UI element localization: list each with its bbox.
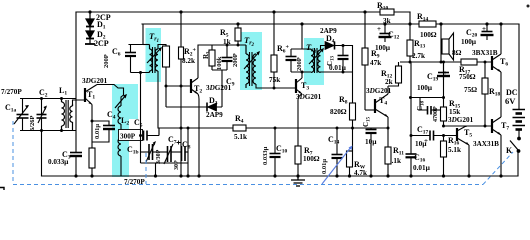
junction dot C13 bottom bbox=[342, 71, 345, 74]
wire L1 secondary top to T1 base bbox=[73, 100, 86, 106]
oscillator coil L2 highlight bbox=[112, 84, 138, 119]
junction dot C18 wire at R13 column bbox=[409, 96, 412, 99]
wire rail B down to Tr3 primary top bbox=[301, 24, 303, 49]
label 300P for C5 on white box bbox=[119, 130, 143, 141]
junction dot T2 emitter ground bbox=[197, 174, 200, 177]
resistor R13 bbox=[407, 24, 413, 62]
junction dot C17 wire at R13 column bbox=[410, 134, 413, 137]
transistor T6 bbox=[492, 54, 501, 72]
svg-text:6/26P: 6/26P bbox=[29, 115, 36, 131]
diode D3 2AP9 bbox=[207, 103, 217, 112]
diode D4 2AP9 bbox=[325, 42, 335, 50]
junction dot gang left ground bbox=[154, 174, 157, 177]
svg-text:5.1k: 5.1k bbox=[234, 133, 247, 141]
svg-text:75k: 75k bbox=[269, 76, 280, 84]
svg-text:4700P: 4700P bbox=[433, 106, 439, 122]
wire antenna tank top rail bbox=[20, 98, 76, 100]
svg-text:3DG201: 3DG201 bbox=[82, 77, 108, 85]
svg-text:5.1k: 5.1k bbox=[448, 146, 461, 154]
wire Tr1 primary top from corner bbox=[143, 44, 150, 46]
junction dot C5 feed at Tr1 bottom wire bbox=[139, 71, 142, 74]
wire R9 to T4 base bbox=[365, 109, 375, 111]
dashed blue gang coupling vertical at C1a bbox=[13, 121, 513, 185]
svg-text:100μ: 100μ bbox=[417, 83, 433, 92]
wire gang box drop to ground left bbox=[155, 163, 157, 176]
junction dot speaker top at rail B bbox=[439, 22, 442, 25]
wire T7 emitter to ground rail bbox=[500, 135, 502, 176]
capacitor C9 bbox=[222, 45, 233, 70]
junction dot C14 ground bbox=[335, 174, 338, 177]
svg-text:200P: 200P bbox=[296, 57, 303, 71]
resistor R8 bbox=[350, 103, 356, 128]
svg-text:0.01μ: 0.01μ bbox=[321, 159, 328, 174]
junction dot C19 R15 at output line bbox=[442, 61, 445, 64]
svg-text:0.01μ: 0.01μ bbox=[94, 124, 101, 139]
wire T4 collector to R12 bbox=[387, 86, 389, 94]
svg-text:10μ: 10μ bbox=[415, 139, 427, 148]
svg-text:820Ω: 820Ω bbox=[330, 107, 347, 116]
junction dot R8 bottom at AGC line bbox=[351, 127, 354, 130]
wire rail A to rail B link bbox=[409, 12, 411, 24]
svg-text:2AP9: 2AP9 bbox=[206, 111, 223, 119]
wire T6 collector up to rail B bbox=[500, 24, 502, 54]
wire tank bottom to ground rail at x41.5 bbox=[41, 131, 43, 177]
dashed blue coupling vertical at C1b bbox=[145, 153, 147, 184]
wire Tr3 secondary bottom node bbox=[321, 71, 353, 73]
svg-text:0.033μ: 0.033μ bbox=[48, 157, 69, 166]
junction dot AGC vertical ground bbox=[179, 174, 182, 177]
junction dot R1 at ground rail bbox=[90, 174, 93, 177]
wire Tr3 bottom node bbox=[291, 71, 311, 73]
IF transformer Tr2 bbox=[244, 45, 260, 88]
junction dot AGC vertical at R4 line bbox=[180, 127, 183, 130]
wire gang box drop to ground right bbox=[187, 163, 189, 176]
stray dot top right bbox=[527, 5, 530, 8]
svg-text:2CP: 2CP bbox=[94, 39, 109, 48]
svg-text:0.033μ: 0.033μ bbox=[262, 146, 269, 165]
junction dot rail A feeding R9 bbox=[363, 10, 366, 13]
inductor L1 primary winding bbox=[62, 99, 65, 131]
variable capacitor C1a bbox=[14, 99, 29, 131]
junction dot R15 bottom bbox=[442, 125, 445, 128]
transistor T2 bbox=[191, 78, 198, 94]
svg-text:10μ: 10μ bbox=[365, 137, 377, 146]
L1 core lines bbox=[66, 100, 68, 128]
junction dot T1 emitter C4 branch bbox=[91, 120, 94, 123]
svg-text:30P: 30P bbox=[174, 160, 180, 170]
wire T2 emitter down to ground rail bbox=[198, 94, 199, 176]
svg-text:+: + bbox=[377, 25, 381, 33]
junction dot T5 emitter ground bbox=[467, 174, 470, 177]
capacitor C13 bbox=[338, 46, 349, 73]
svg-text:6V: 6V bbox=[505, 96, 516, 106]
diode D2 2CP bbox=[85, 27, 95, 45]
wire tank bottom rail bbox=[20, 130, 76, 132]
resistor R1 unlabeled T1 emitter bbox=[89, 142, 95, 176]
wire R2 node down AGC bbox=[180, 86, 182, 176]
wire AGC line y128 bbox=[159, 127, 388, 129]
wire rail B left corner down to Tr1 primary top bbox=[129, 24, 143, 45]
svg-text:0.01μ: 0.01μ bbox=[329, 63, 347, 72]
node junction dot on rail A at D1 bbox=[88, 10, 91, 13]
wire T6 emitter down to T7 collector bbox=[500, 72, 502, 117]
svg-text:3DG201: 3DG201 bbox=[448, 116, 474, 124]
coupling box beside Tr1 bbox=[163, 46, 170, 67]
junction dot speaker bottom bbox=[440, 61, 443, 64]
wire Tr1 secondary bottom down to gang box top bbox=[158, 71, 159, 136]
junction dot C5 feed at ledge bbox=[139, 134, 142, 137]
IF transformer Tr1 highlight bbox=[146, 28, 162, 82]
wire output line y62 bbox=[400, 61, 492, 63]
junction dot rail A feeding R2 bbox=[179, 10, 182, 13]
transistor T4 bbox=[375, 94, 388, 117]
svg-text:300P: 300P bbox=[120, 133, 136, 141]
junction dot R13 at output line bbox=[409, 61, 412, 64]
wire C4 branch bbox=[92, 121, 109, 125]
junction dot T7 emitter ground bbox=[499, 174, 502, 177]
junction dot T4 emitter node bbox=[387, 127, 390, 130]
capacitor C17 bbox=[411, 131, 457, 141]
junction dot C15 ground bbox=[369, 174, 372, 177]
junction dot rail link at B bbox=[408, 22, 411, 25]
dashed blue gang coupling bottom bbox=[13, 184, 483, 186]
inductor L1 secondary winding bbox=[70, 104, 73, 131]
svg-text:3DG201: 3DG201 bbox=[296, 93, 322, 101]
wire T7 base line y126 bbox=[444, 125, 493, 127]
junction dot R5 at node line bbox=[237, 44, 240, 47]
svg-text:2.7k: 2.7k bbox=[412, 52, 425, 60]
wire Tr1 primary bottom node bbox=[131, 72, 150, 74]
oscillator coil L2 with adjustable core bbox=[115, 94, 127, 176]
IF transformer Tr3 highlight bbox=[304, 38, 324, 85]
svg-text:47k: 47k bbox=[370, 59, 381, 67]
wire gang step up to AGC line bbox=[158, 128, 160, 136]
svg-text:100μ: 100μ bbox=[461, 37, 477, 46]
wire Tr2 secondary bottom to T3 base bbox=[256, 84, 296, 88]
junction dot C14 at AGC line bbox=[336, 127, 339, 130]
resistor R2 bbox=[179, 12, 184, 86]
switch K bbox=[510, 137, 520, 176]
wire rail B bbox=[142, 23, 519, 25]
resistor R16 bbox=[441, 136, 447, 177]
junction dot T3 collector node bbox=[301, 71, 304, 74]
junction dot C10 at AGC line bbox=[274, 127, 277, 130]
junction dot tank top at C2 bbox=[40, 97, 43, 100]
junction dot C3 at ground rail bbox=[74, 174, 77, 177]
resistor R10 in rail A bbox=[380, 9, 394, 15]
resistor R12 bbox=[388, 62, 402, 86]
junction dot R18 bottom at T7 base line bbox=[484, 125, 487, 128]
capacitor C4 bbox=[92, 126, 115, 143]
wire T5 collector to T7 base line bbox=[465, 126, 467, 127]
junction dot C16 ground bbox=[409, 174, 412, 177]
resistor R15 bbox=[441, 62, 447, 126]
resistor R4 bbox=[233, 125, 246, 131]
svg-text:750Ω: 750Ω bbox=[459, 72, 476, 81]
wire coupling box to T2 base bbox=[166, 67, 191, 107]
potentiometer wiper arrow blue bbox=[322, 146, 353, 185]
loudspeaker 8ohm bbox=[442, 33, 454, 60]
ground symbol below rail bbox=[291, 176, 305, 186]
junction dot R11 ground bbox=[386, 174, 389, 177]
capacitor C14 bbox=[332, 128, 343, 176]
junction dot C20 at rail B bbox=[485, 22, 488, 25]
junction dot Rw ground bbox=[348, 174, 351, 177]
capacitor C6 bbox=[125, 44, 136, 73]
capacitor C5 bbox=[144, 131, 148, 141]
svg-text:3/30P: 3/30P bbox=[156, 149, 162, 164]
trimmer capacitor C7 bbox=[164, 144, 181, 164]
svg-text:3BX31B: 3BX31B bbox=[472, 49, 498, 57]
junction dot R6 at T3 base wire bbox=[273, 87, 276, 90]
battery 6V bbox=[513, 110, 526, 130]
resistor R14 in rail B bbox=[419, 21, 436, 27]
resistor R11 bbox=[385, 128, 391, 176]
capacitor C3 bbox=[70, 153, 82, 157]
potentiometer Rw volume control bbox=[347, 128, 353, 176]
resistor R17 in output line bbox=[461, 59, 477, 65]
junction dot T6 collector at rail B bbox=[499, 22, 502, 25]
svg-text:15k: 15k bbox=[449, 108, 460, 116]
wire rail B right corner down to battery bbox=[518, 24, 520, 109]
resistor R5 bbox=[235, 24, 241, 45]
transistor T3 bbox=[296, 78, 302, 94]
wire bottom ground rail bbox=[42, 175, 519, 177]
svg-text:7/270P: 7/270P bbox=[1, 88, 22, 96]
diode D1 2CP bbox=[86, 12, 94, 27]
wire R3 C9 bottom node bbox=[212, 66, 227, 70]
capacitor C15 bbox=[366, 128, 389, 176]
junction dot rail B at C12 bbox=[383, 22, 386, 25]
svg-text:8Ω: 8Ω bbox=[452, 48, 462, 57]
wire battery to switch bbox=[518, 130, 520, 138]
IF transformer Tr3 bbox=[309, 48, 324, 73]
junction dot D4 output at C13 bbox=[342, 44, 345, 47]
resistor R6 bbox=[271, 12, 277, 88]
capacitor C18 bbox=[411, 98, 444, 115]
wire T5 emitter to ground bbox=[468, 145, 470, 176]
svg-text:100Ω: 100Ω bbox=[420, 30, 437, 39]
junction dot R18 top at output line bbox=[484, 61, 487, 64]
junction dot R7 ground bbox=[296, 174, 299, 177]
electrolytic capacitor C20 bbox=[481, 24, 494, 40]
svg-text:3AX31B: 3AX31B bbox=[473, 140, 499, 148]
resistor R9 bbox=[362, 12, 368, 110]
junction dot gang right ground bbox=[186, 174, 189, 177]
resistor R7 bbox=[295, 146, 301, 176]
junction dot C10 ground bbox=[273, 174, 276, 177]
wire C5 feed down to gang box bbox=[140, 73, 142, 136]
junction dot gang right at AGC line bbox=[187, 127, 190, 130]
wire T3 emitter down to R7 bbox=[298, 94, 302, 148]
wire top rail A bbox=[76, 11, 410, 13]
dashed blue coupling diagonal to switch K bbox=[483, 152, 513, 185]
svg-text:100Ω: 100Ω bbox=[303, 154, 320, 163]
transistor T5 bbox=[457, 126, 469, 145]
wire Tr3 secondary top to D4 bbox=[320, 46, 322, 51]
capacitor 200P across Tr3 primary bbox=[286, 49, 297, 72]
resistor R18 bbox=[482, 62, 488, 126]
page corner mark bottom left bbox=[0, 188, 4, 191]
junction dot rail B feeding Tr3 bbox=[300, 22, 303, 25]
svg-text:100k: 100k bbox=[216, 56, 223, 70]
wire T1 collector branch to L2 top bbox=[97, 85, 124, 96]
junction dot R5 at rail B bbox=[236, 22, 239, 25]
wire D3 line bbox=[166, 106, 222, 108]
wire speaker feed bbox=[440, 24, 442, 62]
wire T1 emitter down bbox=[91, 105, 93, 143]
wire Tr1 secondary top to coupling box bbox=[158, 45, 166, 50]
wire gang box right side bbox=[187, 128, 189, 163]
electrolytic capacitor C12 bbox=[379, 24, 392, 42]
wire T2 collector node line y52 bbox=[198, 44, 246, 46]
transistor T1 bbox=[85, 85, 97, 105]
junction dots tank bottom bbox=[40, 129, 43, 132]
IF transformer Tr1 bbox=[147, 45, 162, 74]
svg-text:2k: 2k bbox=[385, 78, 393, 86]
junction dot R16 ground bbox=[442, 174, 445, 177]
wire Tr3 top node bbox=[291, 48, 311, 50]
junction dot R2 at T2 base bbox=[180, 85, 183, 88]
wire T2 collector up to IF node bbox=[198, 45, 199, 78]
capacitor C16 bbox=[406, 62, 417, 176]
junction dot C18 wire at R15 column bbox=[442, 96, 445, 99]
wire gang box left side bbox=[140, 136, 142, 164]
svg-text:200P: 200P bbox=[232, 53, 239, 67]
capacitor C10 bbox=[270, 128, 281, 176]
IF transformer Tr2 highlight bbox=[240, 32, 262, 90]
svg-text:0.01μ: 0.01μ bbox=[413, 163, 431, 172]
wire gang box bottom bbox=[141, 162, 189, 164]
svg-text:200P: 200P bbox=[103, 54, 110, 68]
wire T3 collector up to Tr3 bottom node bbox=[301, 72, 303, 78]
trimmer capacitor C2 bbox=[37, 99, 48, 131]
svg-text:75Ω: 75Ω bbox=[464, 85, 477, 94]
svg-text:4.7k: 4.7k bbox=[354, 169, 367, 177]
wire R3 C9 node down to D3 bbox=[221, 70, 223, 107]
electrolytic capacitor C19 bbox=[437, 62, 450, 80]
wire T4 emitter down to AGC node bbox=[387, 117, 389, 128]
capacitor C8 bbox=[177, 141, 189, 162]
resistor R3 bbox=[209, 45, 215, 66]
transistor T7 bbox=[492, 117, 501, 135]
junction dot R16 top at T5 base line bbox=[442, 134, 445, 137]
wire left frame from rail A down through C3 bbox=[75, 12, 77, 152]
variable capacitor C1b tuning gang bbox=[141, 141, 168, 162]
svg-text:100μ: 100μ bbox=[375, 43, 391, 52]
junction dot rail A feeding R6 bbox=[272, 10, 275, 13]
wire ledge from L2 tap to gang box bbox=[123, 135, 159, 137]
wire D4 line bbox=[320, 46, 353, 104]
